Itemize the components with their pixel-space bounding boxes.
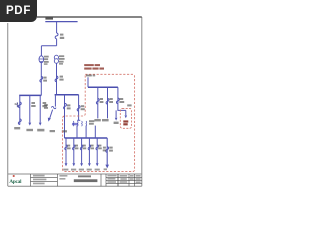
bus left LVMDP (19, 94, 41, 96)
label spare name (50, 130, 55, 132)
node PLN incoming label (45, 17, 53, 19)
breaker G2 (106, 98, 109, 104)
bus right main (55, 94, 79, 96)
wire MDB feeder G2 (107, 87, 109, 118)
wire feeder to sub bus (64, 95, 66, 138)
wire load L4 (88, 138, 90, 163)
kwh-meter M1 (39, 56, 44, 63)
breaker F1b (18, 119, 21, 125)
label Q0 rating (60, 34, 64, 39)
arrow F2 (28, 123, 31, 126)
label L1 (67, 145, 71, 150)
wire main panel feeder (78, 95, 80, 121)
capacitor-bank dashed box (120, 108, 131, 128)
breaker Q2 (55, 76, 58, 82)
breaker L1 (65, 145, 68, 150)
title block (31, 174, 142, 186)
label L1 name (63, 169, 68, 171)
label spare (44, 104, 48, 109)
label L4 (90, 145, 94, 150)
label G2 (109, 98, 113, 103)
label MDB (86, 75, 92, 77)
label Q1 (43, 77, 47, 82)
svg-text:Apcal: Apcal (9, 179, 22, 185)
revision cells text (107, 175, 140, 183)
label Q2 (59, 76, 63, 81)
wire arrow drop A (115, 110, 117, 117)
label F2 rating (31, 102, 35, 107)
breaker spare (51, 106, 56, 108)
arrow L5 (96, 163, 99, 166)
label cap note (127, 104, 131, 106)
title block texts (33, 175, 67, 185)
wire load L1 (65, 138, 67, 163)
label F5 (81, 105, 85, 110)
label L5 name (95, 169, 100, 171)
wire arrow drop B (125, 110, 127, 115)
label F1 (16, 102, 19, 107)
label cap bank (123, 120, 128, 125)
wire main down to bus (56, 63, 58, 95)
label F2 name (26, 129, 33, 131)
breaker L4 (88, 145, 91, 150)
breaker L5 (96, 145, 99, 150)
label M2 (59, 55, 65, 64)
wire main drop (56, 22, 58, 33)
breaker F4 (64, 103, 67, 109)
breaker L6 (106, 147, 109, 153)
arrow L2 (72, 163, 75, 166)
arrow A (115, 118, 118, 121)
label G3 (119, 98, 124, 103)
arrow spare (48, 118, 51, 122)
label cable text (89, 120, 94, 125)
wire MDB corner feeder (118, 87, 126, 110)
wire feeder F2 (29, 95, 31, 122)
label 6x cable note (72, 123, 78, 125)
breaker G3 (116, 98, 119, 104)
wire subfeed 3 (94, 126, 96, 138)
label F4 (67, 104, 71, 109)
wire load L2 (73, 138, 75, 163)
arrow L1 (65, 163, 68, 166)
label L3 name (79, 169, 84, 171)
wire load L3 (81, 138, 83, 163)
label F3 rating (42, 102, 47, 107)
label L3 (83, 145, 87, 150)
wire to junction (41, 39, 56, 46)
label G2 name (102, 119, 109, 121)
title main text (74, 175, 98, 182)
breaker Q0 (55, 33, 58, 39)
arrow F3 (39, 123, 42, 126)
label L6 right (109, 147, 113, 152)
label F4 name (62, 130, 67, 132)
breaker G1 (96, 98, 99, 104)
arrow L3 (80, 163, 83, 166)
wire kwh branch down (40, 62, 42, 96)
label G1 name (94, 119, 100, 121)
label F1 name (14, 127, 20, 129)
label F3 name (37, 129, 44, 132)
label A name (114, 122, 119, 124)
wire subfeed 1 (76, 126, 78, 138)
logo red mark (13, 175, 15, 177)
label L4 name (87, 169, 92, 171)
label L5 (98, 145, 102, 150)
breaker F5 (77, 105, 80, 111)
label G1 (100, 98, 104, 103)
breaker Q1 (40, 76, 43, 82)
bus MDB (88, 86, 118, 88)
label L6 name (104, 168, 107, 170)
label panel title red (84, 64, 104, 70)
wire feeder F3 (39, 95, 41, 122)
breaker L3 (80, 145, 83, 150)
wire subfeed 2 (85, 126, 87, 138)
label L2 (75, 145, 79, 150)
label L6 left (103, 147, 106, 152)
wire spare feeder (54, 95, 56, 107)
PDF badge (0, 0, 37, 22)
wire kwh branch (40, 46, 42, 56)
breaker F1 (18, 102, 21, 108)
red dashed panel boundary (63, 74, 135, 171)
arrow L4 (88, 163, 91, 166)
wire MDB feed (87, 77, 89, 87)
arrow L6 (105, 165, 109, 169)
wire top feeder horizontal (45, 21, 77, 23)
wire feeder F1 (19, 95, 21, 124)
page border frame (8, 17, 142, 186)
wire spare diagonal (50, 110, 53, 119)
label M1 (44, 56, 49, 65)
wire MDB feeder G1 (97, 87, 99, 118)
node F5 end tick (77, 119, 80, 121)
breaker L2 (73, 145, 76, 150)
kwh-meter M2 (54, 55, 58, 60)
wire load L5 (96, 138, 98, 163)
bus sub distribution (65, 137, 108, 139)
label L2 name (71, 169, 76, 171)
wire main outgoing (106, 138, 108, 165)
arrow B (125, 115, 128, 118)
label cable glyph row (73, 121, 86, 126)
